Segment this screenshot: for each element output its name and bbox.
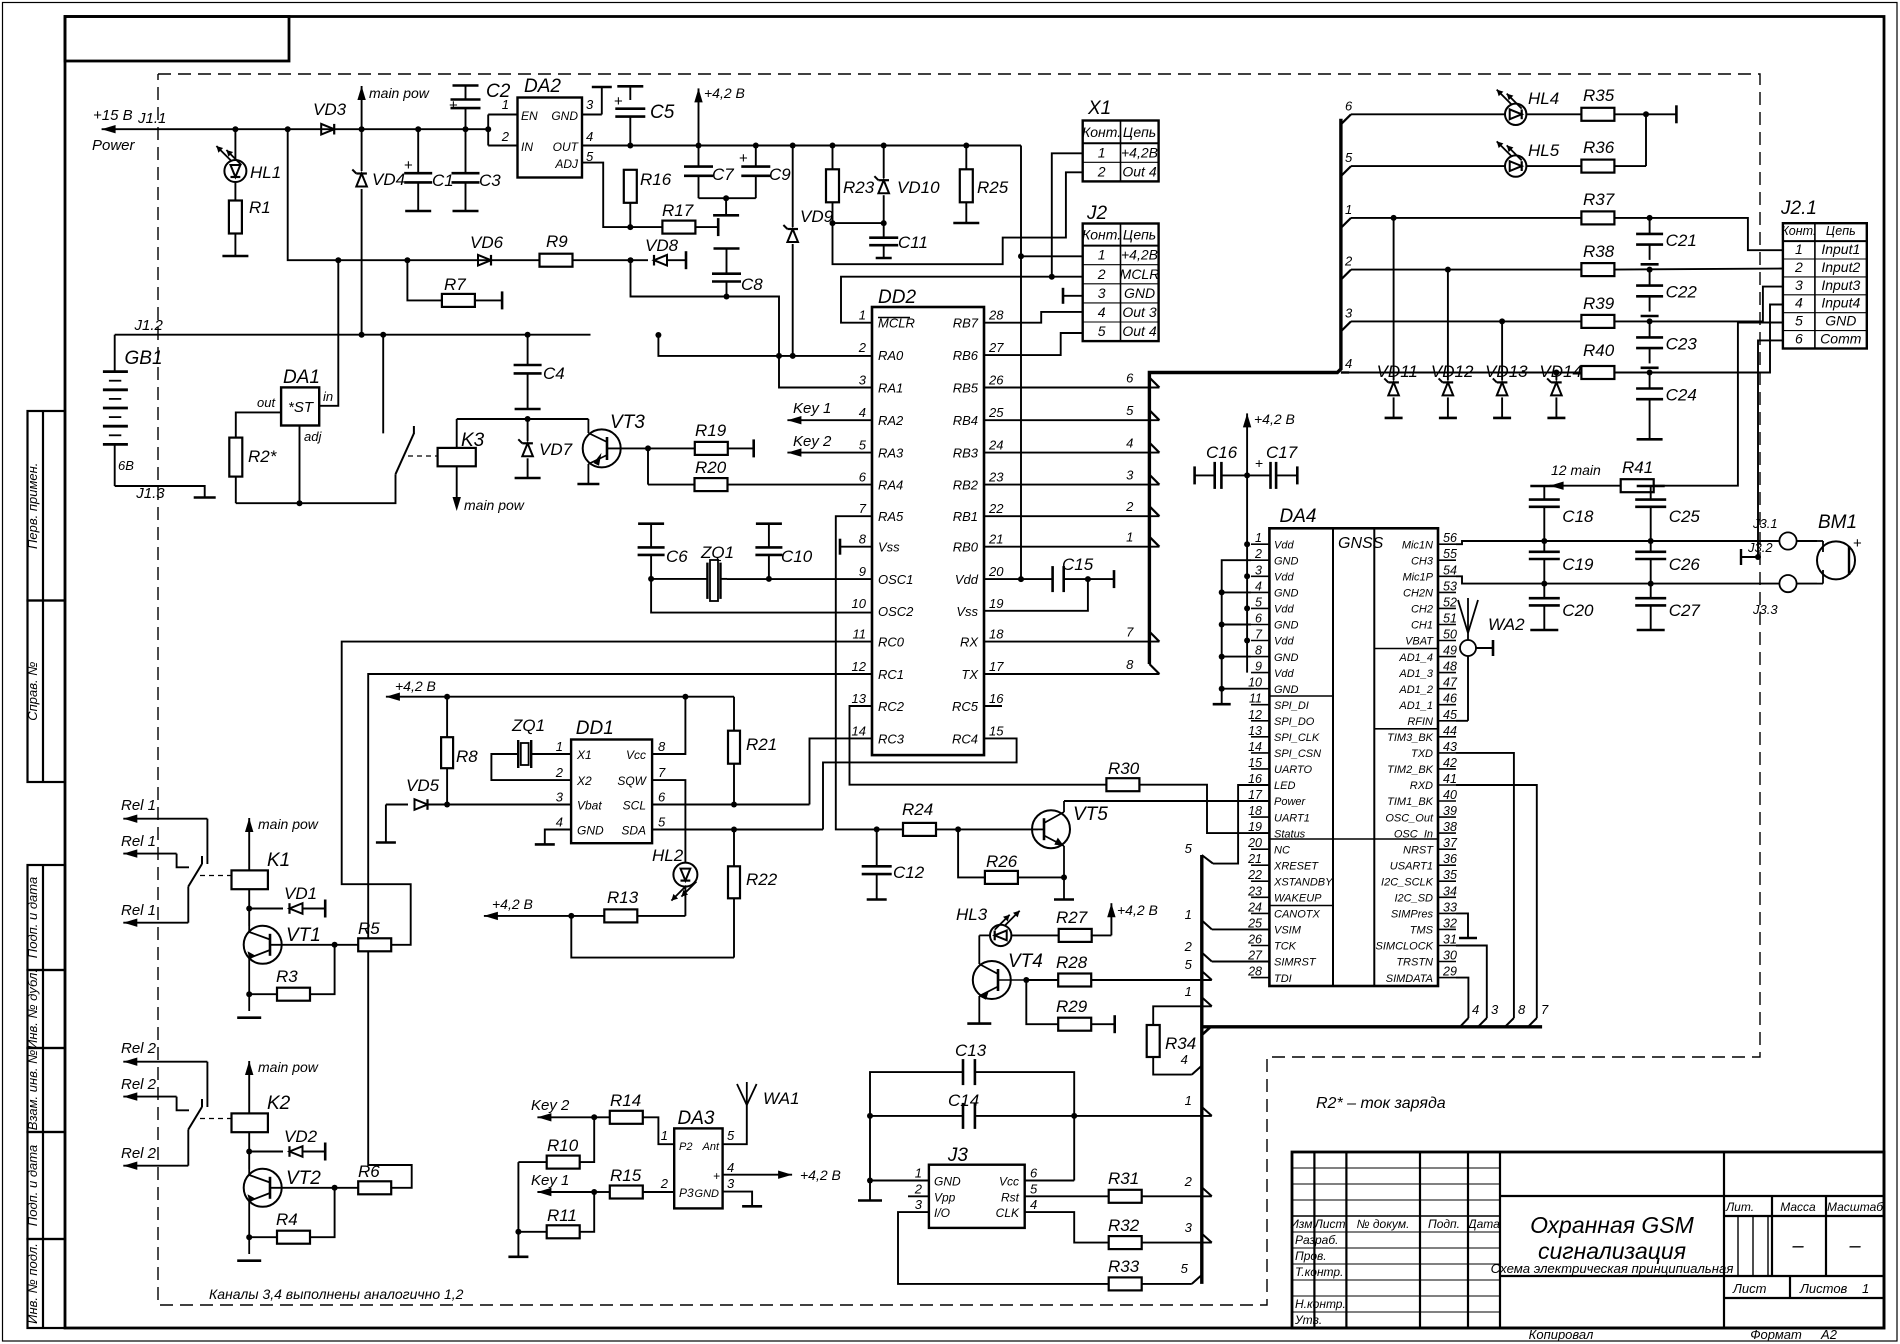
svg-text:+: + [739, 150, 748, 167]
svg-text:+: + [1255, 455, 1263, 471]
svg-text:11: 11 [853, 627, 867, 642]
wire RB net 6 [984, 371, 1159, 388]
transistor VT3 [577, 419, 648, 484]
node R9line-R7 [404, 257, 410, 263]
wire DA1 bottom rail [236, 474, 396, 503]
svg-text:R6: R6 [358, 1162, 380, 1181]
svg-text:Vss: Vss [878, 540, 900, 555]
svg-text:SIMPres: SIMPres [1391, 909, 1434, 921]
svg-text:TMS: TMS [1410, 925, 1434, 937]
svg-text:31: 31 [1443, 933, 1457, 947]
svg-text:4: 4 [1098, 304, 1106, 320]
svg-text:TRSTN: TRSTN [1396, 957, 1433, 969]
svg-text:34: 34 [1443, 884, 1457, 898]
svg-text:52: 52 [1443, 595, 1457, 609]
svg-text:J1.1: J1.1 [137, 110, 166, 127]
svg-text:R16: R16 [640, 170, 672, 189]
wire RB net 5 [984, 403, 1159, 420]
svg-text:J2: J2 [1086, 203, 1108, 224]
zener VD10 [833, 143, 890, 238]
resistor R32 [1025, 1212, 1212, 1249]
crystal ZQ1 (DD2) [651, 560, 727, 601]
svg-text:26: 26 [1247, 933, 1262, 947]
resistor R39 [1581, 287, 1783, 328]
svg-text:1: 1 [1098, 144, 1106, 160]
svg-text:K1: K1 [267, 850, 290, 871]
svg-text:5: 5 [1185, 957, 1193, 972]
svg-text:3: 3 [915, 1197, 923, 1212]
capacitor C21 [1636, 218, 1663, 264]
diode VD3 [321, 124, 334, 135]
LED HL2 [671, 863, 697, 916]
svg-text:10: 10 [852, 596, 867, 611]
svg-text:8: 8 [658, 739, 666, 754]
svg-text:16: 16 [989, 691, 1004, 706]
svg-text:J3: J3 [947, 1145, 969, 1166]
svg-text:C5: C5 [650, 102, 675, 123]
svg-text:53: 53 [1443, 579, 1457, 593]
svg-text:Vdd: Vdd [1274, 604, 1294, 616]
svg-text:8: 8 [1518, 1002, 1526, 1017]
svg-text:adj: adj [304, 429, 322, 444]
wire key1 arrow [787, 416, 872, 424]
svg-text:5: 5 [1345, 150, 1353, 165]
wire DD1 Vcc riser [652, 694, 688, 754]
svg-text:Листов: Листов [1799, 1281, 1848, 1296]
svg-text:C22: C22 [1666, 283, 1698, 302]
svg-text:2: 2 [1184, 939, 1193, 954]
svg-text:RFIN: RFIN [1407, 716, 1433, 728]
wire J3 pin2 stub [908, 1195, 929, 1197]
capacitor C3 [452, 129, 480, 211]
wire SIMRST to bus [1184, 939, 1271, 962]
svg-text:R19: R19 [695, 421, 727, 440]
resistor R34 [1147, 984, 1212, 1075]
svg-text:+: + [713, 1169, 720, 1183]
zener VD4 [352, 129, 367, 335]
svg-text:Input4: Input4 [1821, 295, 1860, 311]
svg-text:R34: R34 [1165, 1034, 1196, 1053]
svg-text:R1: R1 [249, 198, 271, 217]
svg-text:Rel 1: Rel 1 [121, 902, 156, 919]
svg-text:Цепь: Цепь [1123, 227, 1156, 243]
svg-text:Масштаб: Масштаб [1827, 1200, 1884, 1214]
svg-text:4: 4 [1795, 295, 1803, 311]
svg-text:GND: GND [577, 824, 604, 838]
left stamp box Подп. и дата [28, 1132, 66, 1239]
svg-text:HL4: HL4 [1528, 89, 1559, 108]
wire DA3 +4.2 out [723, 1171, 793, 1179]
svg-text:TXD: TXD [1411, 748, 1433, 760]
svg-text:C12: C12 [893, 863, 925, 882]
antenna WA2 [1456, 598, 1493, 721]
svg-text:Vdd: Vdd [1274, 539, 1294, 551]
svg-text:HL3: HL3 [956, 905, 988, 924]
resistor R26 [958, 829, 1064, 884]
resistor R1 [222, 201, 248, 257]
svg-text:C8: C8 [741, 275, 763, 294]
svg-text:DA4: DA4 [1280, 506, 1317, 527]
svg-text:VT5: VT5 [1073, 804, 1108, 825]
svg-text:3: 3 [1255, 563, 1262, 577]
svg-text:R29: R29 [1056, 997, 1088, 1016]
wire +4.2 arrow DA4 [1243, 413, 1251, 475]
bus entry 6 right [1341, 98, 1353, 124]
svg-text:8: 8 [1126, 657, 1134, 672]
resistor R6 [335, 1181, 392, 1194]
svg-text:R28: R28 [1056, 953, 1088, 972]
svg-text:C20: C20 [1562, 601, 1594, 620]
resistor R29 [1026, 980, 1114, 1033]
svg-text:4: 4 [727, 1160, 734, 1175]
wire RB6 to J2 Out4 [984, 333, 1083, 355]
svg-text:R7: R7 [444, 275, 466, 294]
svg-text:UARTO: UARTO [1274, 764, 1313, 776]
svg-text:SCL: SCL [623, 799, 646, 813]
svg-text:5: 5 [727, 1128, 735, 1143]
svg-text:Т.контр.: Т.контр. [1295, 1265, 1343, 1279]
svg-text:C16: C16 [1206, 443, 1238, 462]
node power-C1 [415, 126, 421, 132]
svg-text:TDI: TDI [1274, 973, 1292, 985]
svg-text:14: 14 [852, 723, 866, 738]
node OSC C6 [648, 576, 654, 582]
svg-text:10: 10 [1248, 676, 1262, 690]
svg-text:WA2: WA2 [1488, 615, 1525, 634]
svg-text:Status: Status [1274, 828, 1306, 840]
svg-text:J2.1: J2.1 [1780, 198, 1817, 219]
bus entry 3 right [1341, 305, 1353, 331]
svg-text:J1.2: J1.2 [134, 317, 164, 334]
svg-text:out: out [257, 395, 276, 410]
svg-text:Power: Power [1274, 796, 1307, 808]
svg-text:30: 30 [1443, 949, 1457, 963]
svg-text:2: 2 [1184, 1174, 1193, 1189]
resistor R38 [1581, 263, 1783, 276]
svg-text:Mic1P: Mic1P [1402, 572, 1433, 584]
node power-HL1 [232, 126, 238, 132]
resistor R8 [441, 694, 453, 808]
svg-text:Каналы 3,4 выполнены аналогичн: Каналы 3,4 выполнены аналогично 1,2 [209, 1286, 464, 1302]
svg-text:Конт.: Конт. [1082, 227, 1121, 243]
diode VD2 [249, 1143, 325, 1161]
svg-text:TCK: TCK [1274, 941, 1297, 953]
svg-text:+: + [1853, 535, 1862, 552]
svg-text:2: 2 [501, 129, 510, 144]
wire MCLR net [841, 274, 1083, 323]
svg-text:6: 6 [1255, 612, 1262, 626]
svg-text:RA1: RA1 [878, 381, 903, 396]
wire HL5 line [1351, 165, 1505, 167]
svg-text:№ докум.: № докум. [1357, 1217, 1410, 1231]
svg-text:Перв. примен.: Перв. примен. [25, 463, 40, 549]
svg-text:R35: R35 [1583, 86, 1615, 105]
svg-text:+4,2В: +4,2В [1121, 247, 1158, 263]
svg-text:45: 45 [1443, 708, 1457, 722]
svg-text:22: 22 [988, 501, 1004, 516]
wire J2 pin3 GND stub [1063, 288, 1083, 304]
resistor R4 [249, 1188, 334, 1244]
capacitor C25 [1635, 486, 1666, 544]
svg-text:GND: GND [1274, 620, 1299, 632]
svg-text:Подп. и дата: Подп. и дата [25, 1145, 40, 1226]
diode VD6 [478, 255, 491, 266]
svg-text:16: 16 [1248, 772, 1262, 786]
svg-text:8: 8 [859, 532, 867, 547]
antenna WA1 [723, 1082, 757, 1144]
wire J3 pin6 Vcc [1025, 1116, 1075, 1181]
svg-text:17: 17 [989, 659, 1004, 674]
svg-text:C10: C10 [781, 547, 813, 566]
capacitor C8 [712, 249, 741, 300]
svg-text:Цепь: Цепь [1826, 224, 1856, 238]
svg-text:R15: R15 [610, 1166, 642, 1185]
svg-text:3: 3 [1126, 468, 1134, 483]
svg-text:VD10: VD10 [897, 178, 940, 197]
resistor R40 [1581, 305, 1783, 380]
svg-text:Дата: Дата [1466, 1217, 1500, 1231]
svg-text:А2: А2 [1820, 1327, 1838, 1342]
svg-text:2: 2 [1125, 499, 1134, 514]
svg-text:50: 50 [1443, 628, 1457, 642]
diode VD5 [376, 799, 571, 842]
svg-text:VD9: VD9 [800, 207, 834, 226]
svg-text:2: 2 [858, 340, 867, 355]
svg-text:25: 25 [988, 405, 1004, 420]
svg-text:C18: C18 [1562, 507, 1594, 526]
resistor R36 [1581, 114, 1646, 172]
svg-text:X1: X1 [1087, 98, 1111, 119]
svg-text:P3: P3 [679, 1186, 694, 1200]
transistor VT5 [1032, 801, 1074, 900]
svg-text:Охранная GSM: Охранная GSM [1530, 1212, 1694, 1238]
svg-text:43: 43 [1443, 740, 1457, 754]
resistor R37 [1581, 211, 1783, 250]
wire J2.1 Comm [1741, 340, 1783, 565]
svg-text:GND: GND [1124, 285, 1155, 301]
svg-text:55: 55 [1443, 547, 1457, 561]
mech link dashed K2 [200, 1118, 232, 1120]
svg-text:1: 1 [1098, 247, 1106, 263]
svg-text:Лист: Лист [1314, 1217, 1346, 1231]
wire DA4 Vdd bus [1244, 475, 1250, 672]
wire RC0 descender [342, 642, 872, 945]
transistor VT2 [237, 1169, 334, 1261]
svg-text:WA1: WA1 [763, 1089, 800, 1108]
svg-text:RC3: RC3 [878, 731, 905, 746]
wire DD1 GND [535, 830, 571, 845]
resistor R17 [630, 218, 718, 236]
svg-text:AD1_1: AD1_1 [1398, 700, 1433, 712]
svg-text:R22: R22 [746, 870, 778, 889]
capacitor C23 [1636, 321, 1663, 367]
svg-text:1: 1 [1345, 202, 1352, 217]
svg-text:6: 6 [859, 470, 867, 485]
svg-text:C6: C6 [666, 547, 688, 566]
svg-text:Mic1N: Mic1N [1402, 539, 1433, 551]
svg-text:Справ. №: Справ. № [25, 662, 40, 721]
svg-text:R5: R5 [358, 919, 380, 938]
svg-text:38: 38 [1443, 820, 1457, 834]
svg-text:R25: R25 [977, 178, 1009, 197]
wire VD8 node to RA1 [631, 260, 873, 387]
wire +4.2V rail from DA2 OUT [582, 129, 1021, 164]
capacitor C12 [862, 829, 892, 899]
svg-text:IN: IN [521, 140, 533, 154]
svg-text:1: 1 [1795, 241, 1803, 257]
svg-text:35: 35 [1443, 868, 1457, 882]
capacitor C1 [404, 129, 432, 211]
svg-text:X2: X2 [576, 774, 592, 788]
svg-text:HL5: HL5 [1528, 141, 1560, 160]
wire R40 line [1349, 370, 1653, 376]
svg-text:21: 21 [988, 532, 1003, 547]
svg-text:R2* – ток заряда: R2* – ток заряда [1316, 1095, 1446, 1112]
left stamp box Подп. и дата [28, 865, 66, 970]
node VT1 base [246, 942, 337, 997]
svg-text:R13: R13 [607, 888, 639, 907]
resistor R23 [826, 143, 839, 227]
resistor R9 [540, 254, 573, 267]
left stamp box Инв. № подл. [28, 1239, 66, 1328]
node VT3 base [645, 445, 651, 451]
wire C7-C9 ground tie [699, 195, 756, 215]
IC DA4 GSM module box [1247, 528, 1458, 986]
svg-text:Ant: Ant [701, 1141, 719, 1153]
svg-text:ZQ1: ZQ1 [700, 543, 734, 562]
svg-text:*ST: *ST [288, 399, 315, 416]
svg-text:5: 5 [1185, 841, 1193, 856]
bus group-line DD2 to J2.1 [1149, 119, 1341, 664]
svg-text:RA0: RA0 [878, 348, 904, 363]
wire key2 arrow [787, 448, 872, 456]
svg-text:1: 1 [1185, 1093, 1192, 1108]
IC DD1 RTC box [555, 739, 666, 843]
svg-text:R36: R36 [1583, 138, 1615, 157]
svg-text:Rel 1: Rel 1 [121, 797, 156, 814]
svg-text:19: 19 [989, 596, 1003, 611]
svg-text:20: 20 [1247, 836, 1262, 850]
svg-text:Rel 1: Rel 1 [121, 833, 156, 850]
svg-text:28: 28 [988, 308, 1004, 323]
wire J3 pin1 [870, 1180, 929, 1182]
svg-text:56: 56 [1443, 531, 1457, 545]
svg-text:RB3: RB3 [953, 446, 979, 461]
svg-text:RC1: RC1 [878, 667, 904, 682]
svg-text:Vdd: Vdd [955, 572, 979, 587]
svg-text:R38: R38 [1583, 242, 1615, 261]
svg-text:Vcc: Vcc [626, 748, 646, 762]
svg-text:Input2: Input2 [1821, 259, 1860, 275]
svg-text:4: 4 [586, 129, 593, 144]
connector pin J3.3 [1779, 575, 1817, 592]
svg-text:ADJ: ADJ [554, 157, 579, 171]
svg-text:R27: R27 [1056, 908, 1088, 927]
switch contact near DA1 [383, 335, 414, 475]
svg-text:21: 21 [1247, 852, 1262, 866]
dashed board boundary [158, 74, 1760, 1305]
capacitor C17 [1247, 455, 1297, 489]
resistor R21 [728, 697, 740, 808]
svg-text:CH2: CH2 [1411, 604, 1433, 616]
wire K2 coil to VT [246, 1132, 252, 1169]
svg-text:C14: C14 [948, 1091, 979, 1110]
svg-text:41: 41 [1443, 772, 1457, 786]
svg-text:MCLR: MCLR [1120, 266, 1160, 282]
connector J2.1 table [1781, 223, 1866, 348]
svg-text:NRST: NRST [1403, 844, 1434, 856]
svg-text:Input1: Input1 [1821, 241, 1860, 257]
svg-text:SIMDATA: SIMDATA [1386, 973, 1433, 985]
svg-text:R37: R37 [1583, 190, 1615, 209]
svg-text:R23: R23 [843, 178, 875, 197]
svg-text:–: – [1848, 1235, 1861, 1257]
wire DA1 adj [297, 426, 303, 507]
wire LED16 to bus [1185, 785, 1271, 864]
wire Key1 line [537, 1188, 597, 1196]
svg-text:R4: R4 [276, 1210, 298, 1229]
wire DD1 SQW to HL2 [652, 780, 685, 862]
svg-text:9: 9 [1255, 660, 1262, 674]
svg-text:R33: R33 [1108, 1257, 1140, 1276]
svg-text:GND: GND [551, 109, 578, 123]
wire K1 coil to VT [246, 889, 252, 926]
node power-C2C3 [463, 126, 469, 132]
LED HL3 [990, 911, 1020, 946]
svg-text:SPI_CSN: SPI_CSN [1274, 748, 1321, 760]
svg-text:DA3: DA3 [678, 1108, 715, 1129]
svg-text:+: + [449, 97, 458, 114]
svg-text:Vss: Vss [956, 604, 978, 619]
capacitor C27 [1635, 584, 1666, 630]
wire DA2 pin3 GND [582, 87, 612, 115]
wire DA1 out + resistor R2* [229, 412, 281, 503]
svg-text:CANOTX: CANOTX [1274, 909, 1321, 921]
svg-text:OSC_Out: OSC_Out [1385, 812, 1434, 824]
diode VD1 [249, 900, 325, 918]
svg-text:main pow: main pow [464, 497, 525, 513]
svg-text:RA4: RA4 [878, 478, 903, 493]
wire RB net 2 [984, 499, 1159, 516]
svg-text:23: 23 [988, 470, 1004, 485]
title block [1290, 1152, 1884, 1328]
capacitor C5 [614, 86, 645, 148]
capacitor C14 [963, 1103, 975, 1129]
svg-text:R30: R30 [1108, 759, 1140, 778]
wire Vss19 [984, 579, 1088, 611]
svg-text:Подп.: Подп. [1428, 1217, 1460, 1231]
wire C14 line [867, 1093, 1212, 1119]
svg-text:X1: X1 [576, 748, 592, 762]
wire RC4 to SDA [823, 738, 1017, 829]
svg-text:DD2: DD2 [878, 287, 916, 308]
wire Vdd20 C15 [984, 576, 1091, 582]
resistor R33 [898, 1212, 1202, 1290]
svg-text:1: 1 [1126, 530, 1133, 545]
svg-text:7: 7 [859, 501, 867, 516]
svg-text:17: 17 [1248, 788, 1263, 802]
svg-text:Rst: Rst [1001, 1190, 1020, 1204]
svg-text:R10: R10 [547, 1136, 579, 1155]
svg-text:R39: R39 [1583, 294, 1615, 313]
svg-text:C9: C9 [769, 165, 791, 184]
svg-text:4: 4 [1472, 1002, 1479, 1017]
wire X1 pin1 [1052, 153, 1083, 276]
svg-text:P2: P2 [679, 1141, 692, 1153]
wire J1.1 power line [102, 125, 489, 133]
wire J1.2 line [115, 334, 591, 336]
svg-text:ZQ1: ZQ1 [511, 716, 545, 735]
